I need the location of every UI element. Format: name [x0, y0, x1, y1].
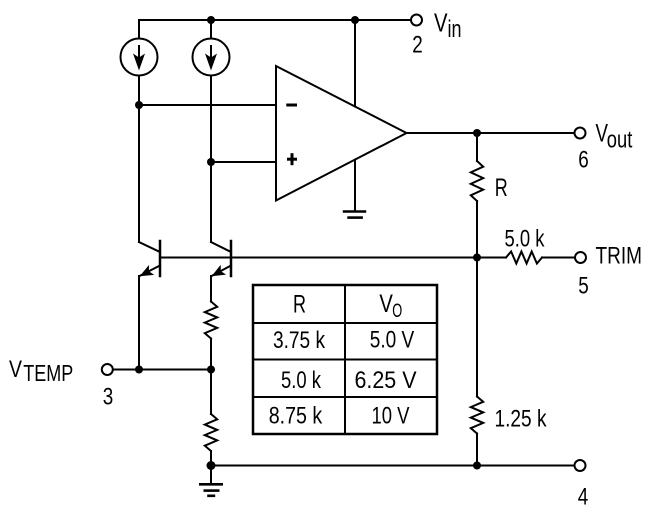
svg-text:V: V: [379, 290, 393, 318]
svg-text:in: in: [448, 16, 462, 43]
wire bottom rail: [211, 465, 575, 467]
transistor Q1 base bar: [159, 241, 162, 276]
resistor lower mid: [205, 414, 217, 451]
junction node output: [473, 129, 481, 137]
terminal pin 3: [102, 364, 113, 375]
transistor Q2 collector diagonal: [211, 242, 231, 252]
terminal pin 5: [575, 252, 586, 263]
wire 5.0k to TRIM terminal: [542, 257, 575, 259]
junction node top I2: [207, 16, 215, 24]
svg-text:4: 4: [578, 484, 589, 510]
current source I1 arrow: [133, 45, 145, 71]
current source I2 arrow: [205, 45, 217, 71]
wire node B down to Q2 collector: [210, 162, 212, 242]
terminal pin 2: [411, 15, 422, 26]
svg-text:R: R: [495, 174, 508, 202]
current source I1: [121, 39, 158, 76]
transistor Q2 base bar: [230, 241, 233, 276]
wire I2 bottom to node B: [210, 76, 212, 163]
ground bottom left: [199, 484, 223, 496]
resistor upper mid: [205, 302, 217, 339]
transistor Q2 emitter arrowhead: [212, 265, 227, 276]
terminal pin 6: [575, 128, 586, 139]
junction node bottom right: [473, 462, 481, 470]
junction node trim: [473, 254, 481, 262]
wire trim node down to 1.25k: [476, 258, 478, 397]
label Vin: [434, 7, 462, 43]
junction node VTEMP left: [135, 366, 143, 374]
resistor 1.25k: [471, 397, 483, 434]
wire inverting input: [139, 104, 276, 106]
wire lower resistor to bottom rail: [210, 451, 212, 466]
junction node A inverting: [135, 101, 143, 109]
table header Vo: [379, 290, 402, 322]
wire right vertical to current source I2: [210, 20, 212, 39]
svg-text:V: V: [9, 356, 22, 383]
svg-text:out: out: [607, 127, 633, 154]
wire ground stub bottom left: [210, 466, 212, 485]
ground op-amp: [343, 212, 366, 218]
op-amp plus symbol: [287, 153, 297, 165]
terminal pin 4: [575, 460, 586, 471]
transistor Q1 emitter arrowhead: [140, 265, 155, 276]
op-amp minus symbol: [286, 104, 297, 107]
svg-text:TEMP: TEMP: [23, 360, 73, 386]
wire op-amp output: [407, 132, 575, 134]
wire I1 bottom to node A: [138, 76, 140, 106]
wire Q2 emitter down to resistor: [210, 276, 212, 302]
wire non-inverting input: [211, 161, 276, 163]
transistor Q1 emitter diagonal: [140, 266, 161, 277]
wire output node down to R: [476, 133, 478, 161]
transistor Q2 emitter diagonal: [212, 266, 232, 277]
table: [253, 285, 437, 434]
svg-text:R: R: [293, 291, 306, 319]
svg-text:5.0 k: 5.0 k: [281, 367, 322, 394]
junction node VTEMP right: [207, 366, 215, 374]
svg-text:8.75 k: 8.75 k: [269, 403, 323, 430]
junction node top supply: [351, 16, 359, 24]
wire mid resistor to VTEMP node: [210, 339, 212, 415]
svg-text:6.25 V: 6.25 V: [355, 367, 417, 394]
junction node B non-inverting: [207, 158, 215, 166]
svg-text:5.0 V: 5.0 V: [370, 327, 415, 354]
wire op-amp ground lead: [354, 160, 356, 211]
wire left vertical to current source I1: [138, 20, 140, 39]
wire op-amp supply: [354, 20, 356, 107]
resistor R: [471, 161, 483, 201]
wire base line to trim node: [160, 257, 506, 259]
svg-text:2: 2: [412, 32, 423, 59]
wire VTEMP line: [113, 369, 211, 371]
svg-text:10 V: 10 V: [372, 403, 410, 430]
wire 1.25k to bottom rail: [476, 434, 478, 466]
op-amp U1: [276, 66, 407, 201]
label VTEMP: [9, 356, 73, 386]
wire R bottom to trim node: [476, 201, 478, 258]
svg-text:TRIM: TRIM: [596, 243, 643, 270]
svg-text:3.75 k: 3.75 k: [273, 327, 326, 354]
svg-text:5: 5: [578, 273, 589, 300]
svg-text:3: 3: [103, 384, 114, 411]
svg-text:O: O: [392, 301, 402, 322]
wire Q1 emitter down to VTEMP line: [138, 276, 140, 370]
resistor 5.0k: [506, 252, 542, 264]
wire top rail: [139, 19, 411, 21]
label Vout: [596, 119, 633, 153]
junction node bottom left: [207, 461, 216, 470]
svg-text:5.0 k: 5.0 k: [505, 225, 546, 252]
svg-text:1.25 k: 1.25 k: [495, 406, 548, 433]
svg-text:V: V: [434, 7, 448, 37]
svg-text:6: 6: [578, 147, 589, 174]
current source I2: [193, 39, 230, 76]
wire node A down to Q1 collector: [138, 105, 140, 242]
transistor Q1 collector diagonal: [139, 242, 160, 252]
